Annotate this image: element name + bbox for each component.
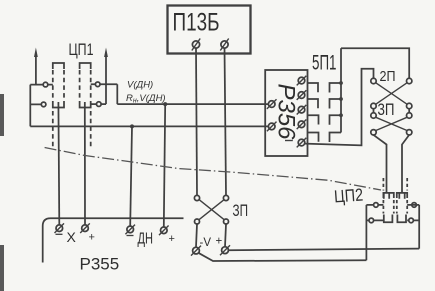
svg-text:2П: 2П — [380, 69, 396, 85]
scan artifact left edge lower — [0, 245, 4, 291]
terminal V+ — [220, 245, 230, 255]
label + (X) — [89, 232, 95, 244]
arrow socket 2 — [105, 55, 107, 104]
svg-text:Р356: Р356 — [273, 83, 300, 140]
switch 5П1 moving hooks — [330, 83, 342, 93]
wire Р356 bottom terminal to 2П left contact — [305, 69, 374, 146]
junction dot on bus Rn — [130, 124, 134, 128]
wire bracket socket 1 — [30, 85, 53, 127]
connector ЦП1 label — [69, 41, 94, 59]
svg-text:ДН: ДН — [138, 231, 154, 248]
terminal X+ of Р355 — [80, 223, 90, 233]
connector ЦП2 socket 1 housing — [383, 178, 393, 222]
connector ЦП2 label — [333, 185, 363, 207]
wire from П13Б left terminal down — [196, 48, 197, 195]
links between 2П and 3П contacts — [374, 109, 410, 113]
junction dots on 5П1 bus — [339, 81, 343, 85]
connector ЦП1 socket 2 pin wire — [84, 102, 86, 225]
label ЗП — [233, 201, 249, 220]
wire ЗП to V- terminal — [196, 224, 197, 247]
svg-text:5П1: 5П1 — [312, 52, 337, 75]
minus mark near Р356 bottom terminal — [285, 140, 293, 142]
svg-text:Rн,V(ДН): Rн,V(ДН) — [126, 93, 166, 105]
svg-text:+: + — [169, 233, 175, 245]
scan artifact left edge upper — [0, 94, 4, 136]
connector ЦП2 contact circles — [374, 203, 379, 208]
label 5П1 — [312, 52, 337, 75]
svg-text:V(ДН): V(ДН) — [127, 80, 153, 91]
wire ЗП to V+ terminal — [225, 224, 226, 247]
device Р356 box — [265, 70, 307, 156]
wire ЦП2 left to V- — [199, 253, 366, 261]
mechanical linkage dash-dot line — [45, 148, 381, 191]
wire 5П1 bus to 2П right contact — [341, 48, 409, 78]
label Р355 — [80, 255, 120, 274]
label 2П — [380, 69, 396, 85]
label X — [67, 229, 77, 245]
svg-text:-V: -V — [200, 237, 212, 249]
svg-text:П13Б: П13Б — [173, 9, 220, 37]
wire 3П left leg to ЦП2 — [374, 135, 387, 193]
wire bracket ЦП2 right — [412, 205, 419, 249]
svg-text:X: X — [67, 229, 77, 245]
label -V — [200, 237, 212, 249]
connector ЦП1 socket 1 pin wire — [57, 102, 60, 225]
label V(ДН) — [127, 80, 153, 91]
terminal Р356 left top — [267, 99, 277, 109]
svg-text:ЦП1: ЦП1 — [69, 41, 94, 59]
switch 2П contacts — [371, 78, 376, 83]
label + (V) — [216, 236, 223, 248]
connector ЦП2 socket 2 housing — [397, 178, 407, 222]
terminal X- of Р355 — [55, 223, 65, 234]
wire from П13Б right terminal down — [225, 48, 227, 195]
connector ЦП1 socket 2 housing (dashed) — [80, 63, 91, 148]
switch ЗП cross wires — [199, 200, 224, 220]
wire stubs ЦП2 circles to housings — [374, 205, 412, 221]
terminal of П13Б left — [192, 39, 200, 51]
wire drop to DN- terminal — [130, 126, 132, 226]
label Rн,V(ДН) — [126, 93, 166, 105]
wire bracket ЦП2 left — [366, 205, 373, 260]
switch 3П contacts — [371, 113, 376, 118]
terminal ДН+ of Р355 — [159, 226, 169, 236]
svg-text:ЗП: ЗП — [233, 201, 249, 220]
node: bus Rn wire — [30, 125, 268, 127]
svg-text:+: + — [216, 236, 223, 248]
terminal ДН- of Р355 — [125, 225, 135, 236]
label Р356 (rotated) — [273, 83, 300, 140]
node: bus V(DN) wire — [117, 103, 268, 105]
connector ЦП1 socket 1 contact circles — [43, 82, 48, 87]
terminals Р356 right column — [297, 76, 307, 148]
wire 3П right leg to ЦП2 — [402, 135, 409, 193]
device П13Б box — [168, 6, 251, 54]
connector ЦП1 socket 1 housing (dashed) — [53, 63, 64, 148]
terminal Р356 left bottom — [267, 122, 277, 132]
svg-text:3П: 3П — [378, 101, 395, 119]
svg-text:Р355: Р355 — [80, 255, 120, 274]
svg-text:+: + — [89, 232, 95, 244]
wire drop to DN+ terminal — [164, 104, 165, 226]
junction dot on bus V(DN) — [163, 102, 167, 106]
label ДН — [138, 231, 154, 248]
terminal of П13Б right — [220, 39, 228, 51]
switch 2П cross wires — [376, 83, 407, 104]
wire ЦП2 right to V+ — [228, 249, 419, 251]
arrow socket 1 — [35, 55, 37, 85]
label 3П — [378, 101, 395, 119]
switch ЗП contacts — [194, 195, 199, 200]
switch 5П1 moving contact bus — [340, 48, 342, 132]
label + (ДН) — [169, 233, 175, 245]
switch 3П cross wires — [376, 117, 407, 130]
terminal V- — [191, 246, 201, 256]
device Р355 outline — [43, 218, 184, 262]
wire bracket socket 2 — [91, 84, 118, 104]
connector ЦП1 socket 2 contact circles — [95, 82, 100, 87]
svg-text:ЦП2: ЦП2 — [333, 185, 363, 207]
switch 5П1 stationary hooks — [308, 83, 319, 92]
